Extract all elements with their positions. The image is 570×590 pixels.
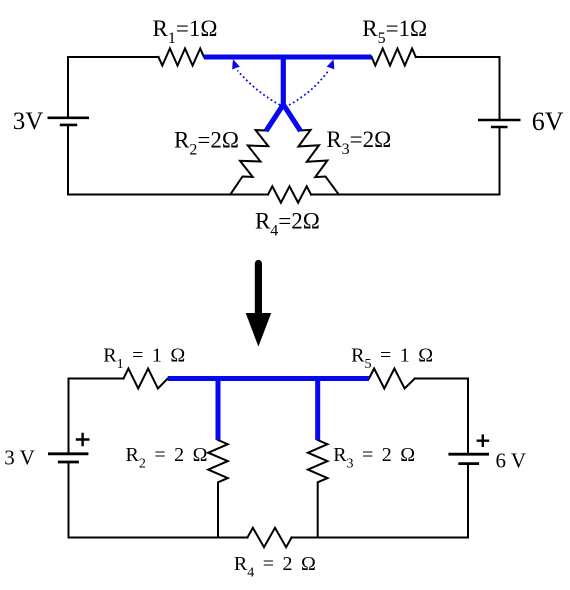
polarity plus sign (6V battery) (477, 434, 490, 447)
wire: top circuit right-bottom segment (311, 128, 500, 195)
polarity plus sign (3V battery) (76, 433, 90, 447)
resistor R3 (bottom circuit, vertical, 2 ohm) (308, 440, 328, 538)
resistor R4 (bottom circuit, 2 ohm) (247, 528, 291, 547)
wire: blue vertical stem (top circuit) (281, 55, 286, 107)
wire: top circuit top-left segment (68, 57, 159, 117)
svg-text:3 V: 3 V (4, 446, 35, 470)
wire: top circuit left-bottom segment (68, 125, 268, 194)
resistor R2 (bottom circuit, vertical, 2 ohm) (208, 440, 228, 538)
wire: blue Y left arm (266, 105, 283, 132)
resistor R2 (top circuit, 2 ohm, delta left leg) (230, 130, 268, 194)
wire: blue Y right arm (283, 105, 300, 132)
battery 3V (bottom circuit) (48, 454, 88, 462)
wire: dotted arc left (Y-to-bus indicator) (238, 71, 281, 106)
wire: bottom circuit top-right segment (415, 379, 468, 454)
svg-text:6 V: 6 V (496, 449, 527, 473)
wire: blue horizontal bus (top circuit) (204, 55, 372, 60)
wire: blue horizontal bus (bottom circuit) (168, 376, 369, 381)
wire: bottom circuit left-bottom segment (69, 463, 248, 538)
wire: top circuit top-right segment (416, 57, 500, 120)
wire: blue left drop to R2 (216, 379, 221, 441)
resistor R5 (top circuit, 1 ohm) (372, 49, 416, 66)
wire: bottom circuit top-left segment (69, 379, 124, 454)
svg-text:3V: 3V (13, 108, 44, 135)
resistor R1 (top circuit, 1 ohm) (159, 49, 205, 66)
battery 6V (top circuit) (478, 120, 521, 127)
resistor R5 (bottom circuit, 1 ohm) (369, 369, 415, 389)
arrow: transformation arrow (down) (246, 260, 272, 347)
battery 3V (top circuit) (48, 118, 90, 125)
arrowhead right (blue) (327, 59, 335, 69)
arrowhead left (blue) (232, 59, 240, 69)
svg-text:6V: 6V (532, 107, 564, 136)
resistor R3 (top circuit, 2 ohm, delta right leg) (298, 130, 338, 195)
wire: dotted arc right (Y-to-bus indicator) (289, 71, 329, 106)
wire: blue right drop to R3 (315, 379, 320, 441)
resistor R4 (top circuit, 2 ohm, delta bottom leg) (268, 186, 311, 202)
wire: bottom circuit right-bottom segment (292, 464, 468, 537)
resistor R1 (bottom circuit, 1 ohm) (124, 369, 168, 389)
battery 6V (bottom circuit) (448, 454, 489, 463)
